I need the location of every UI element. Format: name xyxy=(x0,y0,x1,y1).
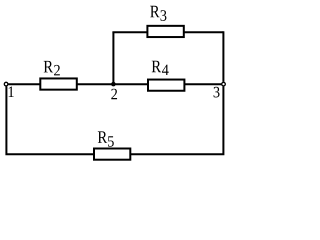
wire: top branch left segment xyxy=(112,31,148,33)
wire: node 1 to R2 xyxy=(8,83,41,85)
wire: top branch right segment xyxy=(184,31,224,33)
resistor R4 xyxy=(148,61,184,91)
wire: R2 to R4 through node 2 xyxy=(76,83,148,85)
resistor R5 xyxy=(94,131,130,159)
wire: node 2 up to top branch xyxy=(112,32,114,84)
node 2 (junction dot) xyxy=(111,82,117,99)
wire: node 1 down and along bottom to R5 xyxy=(6,86,94,154)
wire: R4 to node 3 xyxy=(184,83,221,85)
wire: R5 along bottom and up to node 3 xyxy=(130,86,223,154)
resistor R3 xyxy=(147,6,183,37)
node 1 xyxy=(4,82,13,97)
wire: right vertical from top branch down to node 3 xyxy=(222,31,224,82)
node 3 xyxy=(214,82,226,97)
resistor R2 xyxy=(40,61,77,90)
